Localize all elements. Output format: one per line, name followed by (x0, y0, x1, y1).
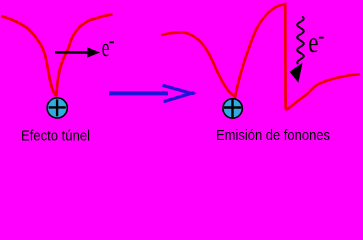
svg-text:e: e (308, 26, 318, 59)
hole symbol plus horizontal (right) (224, 106, 241, 108)
svg-text:Emisión de fonones: Emisión de fonones (216, 127, 330, 144)
hole symbol plus vertical (left) (56, 99, 58, 116)
electron superscript minus (right) (319, 37, 324, 39)
right potential well curve with phonon-emission band edge (161, 4, 360, 109)
transition arrow blunt tip nub (blue) (188, 91, 195, 95)
tunneling electron arrow shaft (55, 51, 89, 54)
hole symbol plus vertical (right) (231, 99, 233, 117)
svg-text:e: e (102, 33, 110, 62)
left potential well curve (1, 14, 113, 95)
phonon arrowhead (290, 63, 303, 83)
hole symbol plus horizontal (left) (49, 106, 66, 108)
tunneling electron arrowhead (87, 47, 100, 57)
transition arrow chevron head (blue) (163, 85, 192, 101)
hole symbol circle (right) (223, 99, 242, 118)
transition arrow shaft (blue) (109, 91, 168, 95)
electron superscript minus (left) (110, 41, 115, 43)
svg-text:Efecto túnel: Efecto túnel (21, 128, 90, 145)
hole symbol circle (left) (47, 98, 67, 118)
phonon wavy arrow line (297, 17, 304, 65)
